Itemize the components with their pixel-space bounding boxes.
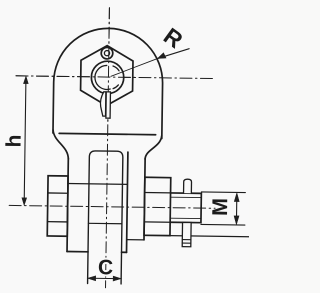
nut (right) (144, 177, 171, 235)
pin end circle (91, 61, 124, 94)
cotter pin (right, top stub) (184, 179, 192, 193)
right inner edge (127, 152, 128, 252)
cotter pin leg right (top assembly) (106, 92, 111, 118)
centerline over pin circle (vertical) (108, 8, 110, 124)
R leader continuation to center (111, 58, 157, 77)
h dimension line with arrows (24, 80, 26, 202)
R leader arrowhead (157, 53, 166, 59)
bolt head (left) (47, 176, 68, 236)
interior line lower (88, 222, 121, 224)
C dimension line with arrows (91, 277, 117, 279)
slot (clevis gap) (88, 151, 123, 284)
pin chamfer arc (left C) (95, 65, 111, 89)
left prong outer edge (67, 158, 68, 251)
cotter pin leg left (top assembly) (100, 92, 106, 116)
vertical centerline (106, 8, 110, 288)
pin chamfer arc (upper right) (113, 66, 119, 71)
R leader line (157, 48, 189, 59)
body bottom (67, 251, 126, 254)
cotter pin (right, legs) (182, 222, 191, 246)
hexagon nut (top) (80, 45, 133, 106)
step under nut (127, 239, 144, 241)
svg-text:C: C (98, 256, 113, 279)
cotter ring (101, 47, 113, 59)
right fillet (145, 135, 162, 159)
bolt tip (170, 193, 201, 223)
M dimension line with arrows (235, 197, 237, 221)
svg-text:h: h (2, 134, 25, 147)
centerline over pin circle (horizontal) (16, 76, 137, 78)
interior line upper (68, 183, 127, 186)
right outer edge (144, 158, 145, 240)
M dimension extension lines (201, 192, 245, 225)
pin chamfer arc (lower right) (113, 85, 118, 89)
head bottom line (59, 133, 155, 134)
head outline (eye) (53, 28, 163, 139)
horizontal centerline (bolt axis) (9, 205, 215, 208)
nut bottom line extension to edge (170, 236, 249, 237)
left fillet (53, 130, 69, 159)
horizontal centerline (eye pin axis) (16, 76, 214, 79)
svg-text:M: M (208, 198, 232, 216)
